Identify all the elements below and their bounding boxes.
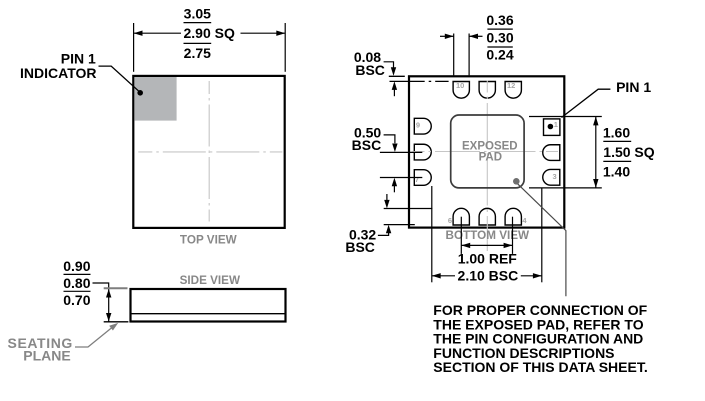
svg-text:0.80: 0.80 bbox=[63, 275, 90, 291]
lead 7 bbox=[414, 170, 431, 186]
PIN 1 INDICATOR label bbox=[20, 50, 96, 81]
lead 5 bbox=[479, 208, 495, 225]
side view body outline bbox=[131, 289, 286, 322]
EXPOSED PAD label bbox=[462, 141, 518, 164]
exposed pad note leader line bbox=[518, 184, 566, 296]
svg-text:12: 12 bbox=[507, 81, 515, 90]
lead top line with dash-dot (0.08) bbox=[390, 80, 449, 82]
exposed pad top extension line bbox=[529, 116, 602, 118]
svg-text:PIN 1: PIN 1 bbox=[61, 50, 96, 66]
right extension line bbox=[284, 23, 286, 72]
side top extension line (gray) bbox=[104, 287, 128, 289]
0.32 BSC label bbox=[345, 227, 376, 256]
lead 7 centerline extension bbox=[380, 177, 422, 179]
dimension 1.60 / 1.50 SQ / 1.40 text block bbox=[603, 125, 655, 180]
svg-text:BSC: BSC bbox=[345, 239, 375, 255]
svg-text:6: 6 bbox=[448, 216, 452, 225]
svg-text:INDICATOR: INDICATOR bbox=[20, 65, 96, 81]
2.10 BSC extension lines bbox=[432, 186, 542, 282]
0.50 BSC leader and arrows bbox=[384, 135, 398, 192]
pin 1 indicator leader line bbox=[99, 66, 144, 96]
svg-text:1.00 REF: 1.00 REF bbox=[458, 250, 518, 266]
bottom lead tip extension line (0.32) bbox=[384, 208, 433, 210]
seating plane leader arrow (gray) bbox=[75, 323, 118, 347]
svg-text:0.36: 0.36 bbox=[486, 12, 513, 28]
lead 12 bbox=[505, 82, 521, 99]
svg-text:0.30: 0.30 bbox=[486, 30, 513, 46]
svg-text:TOP VIEW: TOP VIEW bbox=[180, 234, 238, 247]
0.50 BSC label bbox=[352, 124, 382, 153]
lead 3 bbox=[543, 169, 560, 185]
0.32 BSC arrows and leader bbox=[378, 194, 391, 235]
svg-text:EXPOSED: EXPOSED bbox=[462, 141, 518, 153]
lead 2 bbox=[543, 145, 560, 161]
bottom view package body outline bbox=[409, 76, 564, 227]
2.10 BSC dimension line bbox=[432, 273, 542, 278]
pin 1 dot bbox=[548, 124, 554, 130]
svg-text:3: 3 bbox=[553, 172, 557, 181]
bottom view horizontal centerline bbox=[413, 151, 563, 153]
exposed pad bottom extension line bbox=[529, 187, 602, 189]
top view vertical centerline bbox=[208, 81, 210, 222]
svg-text:BSC: BSC bbox=[352, 137, 382, 153]
svg-text:10: 10 bbox=[456, 81, 464, 90]
svg-text:9: 9 bbox=[416, 121, 420, 130]
svg-text:PLANE: PLANE bbox=[23, 348, 70, 364]
svg-text:1.60: 1.60 bbox=[603, 125, 630, 141]
svg-text:1.50 SQ: 1.50 SQ bbox=[603, 144, 654, 160]
package edge extension line (0.08) bbox=[389, 75, 405, 77]
dimension 0.90 / 0.80 / 0.70 text block bbox=[63, 258, 90, 308]
svg-text:7: 7 bbox=[415, 175, 419, 184]
svg-text:2.10 BSC: 2.10 BSC bbox=[458, 267, 519, 283]
side height dimension leader and arrows bbox=[93, 283, 112, 322]
lead 9 bbox=[414, 118, 431, 134]
dimension 3.05 / 2.90 SQ / 2.75 text block bbox=[184, 6, 235, 62]
lead 4 bbox=[505, 208, 521, 225]
top width dimension line with arrows bbox=[134, 31, 286, 36]
svg-text:FOR PROPER CONNECTION OF: FOR PROPER CONNECTION OF bbox=[433, 302, 647, 318]
svg-text:0.90: 0.90 bbox=[63, 258, 90, 274]
0.08 BSC leader and arrows bbox=[384, 62, 398, 96]
lead width dimension arrows bbox=[440, 34, 483, 39]
bottom lead end extension line (0.32) bbox=[384, 224, 415, 226]
seating plane extension line bbox=[104, 321, 129, 323]
lead 11 bbox=[479, 82, 495, 99]
svg-text:SIDE VIEW: SIDE VIEW bbox=[180, 274, 241, 287]
exposed pad size dimension line bbox=[593, 117, 598, 188]
side view standoff line bbox=[132, 313, 285, 315]
bottom view vertical centerline bbox=[486, 81, 488, 252]
svg-text:1.40: 1.40 bbox=[603, 163, 630, 179]
svg-text:SECTION OF THIS DATA SHEET.: SECTION OF THIS DATA SHEET. bbox=[433, 359, 647, 375]
svg-text:2.90 SQ: 2.90 SQ bbox=[184, 25, 235, 41]
pin 1 leader line bbox=[562, 89, 611, 117]
svg-text:0.70: 0.70 bbox=[63, 292, 90, 308]
pin 1 lead (square) bbox=[544, 119, 560, 135]
svg-text:PIN 1: PIN 1 bbox=[616, 79, 651, 95]
dimension 0.36 / 0.30 / 0.24 text block bbox=[486, 12, 513, 63]
left extension line bbox=[133, 23, 135, 72]
0.08 BSC label bbox=[354, 49, 385, 78]
svg-text:1: 1 bbox=[554, 120, 558, 129]
lead 6 bbox=[453, 208, 469, 225]
lead width extension lines bbox=[454, 34, 469, 76]
svg-text:2.75: 2.75 bbox=[184, 45, 211, 61]
lead 10 bbox=[453, 82, 469, 99]
svg-text:PAD: PAD bbox=[479, 152, 502, 164]
top view package body outline bbox=[133, 76, 284, 228]
lead 8 centerline extension bbox=[380, 151, 422, 153]
lead 8 bbox=[414, 144, 431, 160]
svg-text:3.05: 3.05 bbox=[184, 6, 211, 22]
pin 1 indicator gray square bbox=[134, 77, 176, 121]
1.00 REF extension lines bbox=[461, 217, 512, 254]
exposed pad reference dot (gray) bbox=[513, 178, 520, 185]
SEATING PLANE label bbox=[8, 335, 73, 364]
1.00 REF dimension line bbox=[461, 243, 512, 248]
top view horizontal centerline bbox=[138, 151, 282, 153]
svg-text:0.24: 0.24 bbox=[486, 47, 513, 63]
exposed pad outline bbox=[451, 115, 524, 188]
exposed pad note text bbox=[433, 302, 647, 375]
svg-text:BSC: BSC bbox=[355, 62, 385, 78]
svg-text:BOTTOM VIEW: BOTTOM VIEW bbox=[446, 229, 531, 242]
